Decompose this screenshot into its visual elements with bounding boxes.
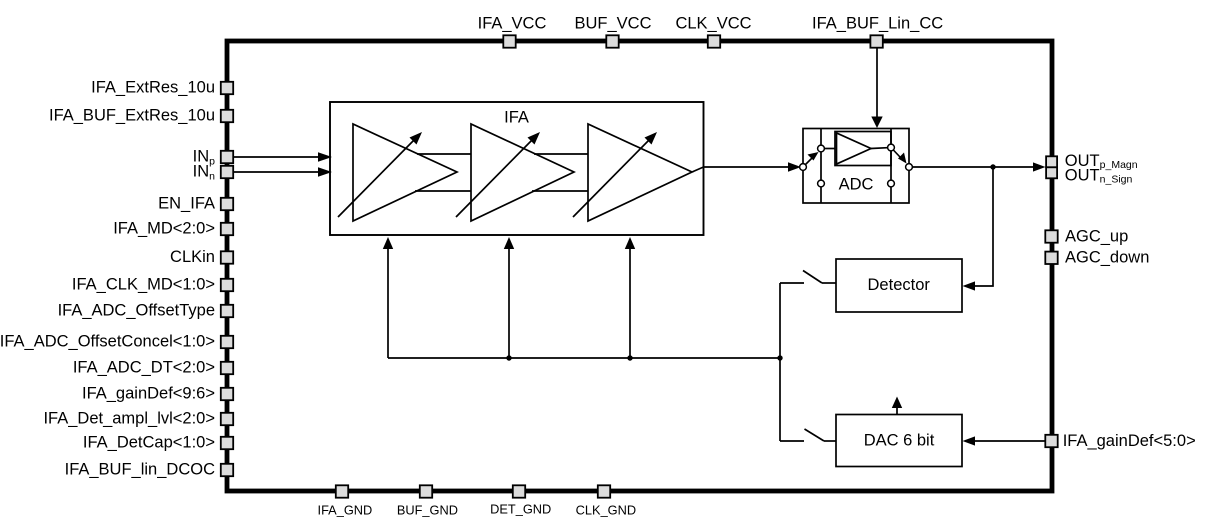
svg-text:ADC: ADC bbox=[839, 176, 874, 194]
ADC internal rail right bbox=[890, 129, 892, 204]
gain control arrow 2 bbox=[504, 237, 514, 358]
amplifier A2 bbox=[471, 124, 574, 221]
pin OUTn_Sign bbox=[1046, 167, 1132, 186]
svg-text:IFA_MD<2:0>: IFA_MD<2:0> bbox=[113, 220, 215, 238]
pin INn bbox=[193, 163, 234, 183]
node ADC out bbox=[906, 164, 913, 171]
ADC internal rail left bbox=[820, 129, 822, 204]
IFA block box bbox=[330, 102, 704, 235]
pin IFA_ADC_DT20 bbox=[73, 359, 233, 377]
svg-text:IFA_BUF_Lin_CC: IFA_BUF_Lin_CC bbox=[812, 14, 943, 32]
pin IFA_BUF_lin_DCOC bbox=[65, 461, 234, 479]
wire A3 output to IFA edge bbox=[692, 167, 704, 172]
pin IFA_gainDef5:0 bbox=[1045, 432, 1195, 450]
pin IFA_ADC_OffsetType bbox=[58, 302, 234, 320]
switch Detector feed bbox=[780, 271, 836, 284]
svg-text:IFA_ADC_OffsetConcel<1:0>: IFA_ADC_OffsetConcel<1:0> bbox=[0, 333, 215, 351]
svg-text:BUF_VCC: BUF_VCC bbox=[574, 14, 651, 32]
svg-text:DET_GND: DET_GND bbox=[490, 502, 551, 517]
switch ADC output bbox=[891, 148, 907, 164]
DAC box bbox=[836, 415, 962, 467]
gain arrow A3 bbox=[573, 132, 657, 217]
svg-text:AGC_down: AGC_down bbox=[1065, 249, 1149, 267]
DAC up arrow bbox=[892, 397, 902, 415]
wire INn into IFA bbox=[234, 167, 332, 177]
svg-text:AGC_up: AGC_up bbox=[1065, 228, 1128, 246]
amplifier A3 bbox=[588, 124, 692, 221]
node rail right lower bbox=[888, 180, 895, 187]
svg-text:IFA_gainDef<5:0>: IFA_gainDef<5:0> bbox=[1063, 432, 1196, 450]
wire IFA output to ADC bbox=[704, 162, 802, 172]
svg-text:IFA: IFA bbox=[504, 109, 529, 127]
svg-text:CLK_VCC: CLK_VCC bbox=[675, 14, 751, 32]
svg-text:IFA_ExtRes_10u: IFA_ExtRes_10u bbox=[91, 79, 215, 97]
svg-text:DAC 6 bit: DAC 6 bit bbox=[864, 432, 935, 450]
svg-text:IFA_Det_ampl_lvl<2:0>: IFA_Det_ampl_lvl<2:0> bbox=[43, 410, 215, 428]
pin IFA_CLK_MD10 bbox=[72, 276, 233, 294]
wire buffer output bbox=[871, 148, 891, 149]
wire INp into IFA bbox=[234, 152, 332, 162]
pin DET_GND bbox=[490, 485, 551, 516]
pin IFA_BUF_ExtRes_10u bbox=[49, 107, 233, 125]
svg-text:IFA_VCC: IFA_VCC bbox=[478, 14, 547, 32]
pin IFA_BUF_Lin_CC bbox=[812, 14, 943, 47]
pin CLKin bbox=[170, 248, 233, 266]
pin AGC_down bbox=[1045, 249, 1149, 267]
svg-text:IFA_DetCap<1:0>: IFA_DetCap<1:0> bbox=[83, 434, 215, 452]
svg-text:Detector: Detector bbox=[868, 276, 931, 294]
ADC buffer triangle bbox=[837, 133, 872, 164]
gain arrow A1 bbox=[338, 132, 422, 217]
junction bus riser bbox=[777, 355, 782, 360]
node rail left lower bbox=[818, 180, 825, 187]
pin IFA_ExtRes_10u bbox=[91, 79, 233, 97]
pin IFA_gainDef96 bbox=[82, 385, 233, 403]
Detector box bbox=[836, 259, 962, 312]
gain control arrow 1 bbox=[383, 237, 393, 358]
svg-text:IFA_gainDef<9:6>: IFA_gainDef<9:6> bbox=[82, 385, 215, 403]
pin IFA_ADC_OffsetConcel10 bbox=[0, 333, 233, 351]
wire interstage A2-A3 top bbox=[534, 153, 588, 155]
pin IFA_MD20 bbox=[113, 220, 233, 238]
junction bus a2 bbox=[506, 355, 511, 360]
ADC block box bbox=[803, 129, 909, 204]
pin CLK_GND bbox=[576, 485, 636, 517]
pin IFA_GND bbox=[318, 485, 373, 517]
wire IFA_gainDef5:0 to DAC bbox=[963, 436, 1047, 445]
wire interstage A1-A2 bottom bbox=[415, 190, 471, 192]
gain arrow A2 bbox=[456, 132, 540, 217]
DAC label bbox=[864, 432, 935, 450]
pin BUF_GND bbox=[397, 485, 458, 517]
svg-text:EN_IFA: EN_IFA bbox=[158, 195, 215, 213]
svg-text:IFA_ADC_OffsetType: IFA_ADC_OffsetType bbox=[58, 302, 215, 320]
ADC buffer box bbox=[835, 132, 891, 166]
ADC label bbox=[839, 176, 874, 194]
svg-text:IFA_GND: IFA_GND bbox=[318, 503, 373, 518]
wire ADC to OUT pins bbox=[913, 162, 1046, 171]
pin CLK_VCC bbox=[675, 14, 751, 47]
wire interstage A1-A2 top bbox=[417, 153, 471, 155]
wire IFA_BUF_Lin_CC down to ADC bbox=[871, 47, 882, 128]
svg-text:IFA_ADC_DT<2:0>: IFA_ADC_DT<2:0> bbox=[73, 359, 215, 377]
junction bus a3 bbox=[627, 355, 632, 360]
node ADC in bbox=[800, 164, 807, 171]
switch ADC input bbox=[803, 152, 819, 167]
svg-text:CLKin: CLKin bbox=[170, 248, 215, 266]
svg-text:IFA_BUF_ExtRes_10u: IFA_BUF_ExtRes_10u bbox=[49, 107, 215, 125]
gain control arrow 3 bbox=[625, 237, 635, 358]
svg-text:BUF_GND: BUF_GND bbox=[397, 503, 458, 518]
Detector label bbox=[868, 276, 931, 294]
svg-text:IFA_CLK_MD<1:0>: IFA_CLK_MD<1:0> bbox=[72, 276, 215, 294]
pin EN_IFA bbox=[158, 195, 233, 213]
pin IFA_Det_ampl_lvl20 bbox=[43, 410, 233, 428]
switch DAC feed bbox=[780, 429, 836, 441]
wire interstage A2-A3 bottom bbox=[532, 190, 588, 192]
pin INp bbox=[193, 148, 234, 168]
pin IFA_DetCap10 bbox=[83, 434, 233, 452]
svg-text:CLK_GND: CLK_GND bbox=[576, 503, 636, 518]
node rail right upper bbox=[888, 144, 895, 151]
node rail left upper bbox=[818, 145, 825, 152]
chip boundary bbox=[227, 41, 1052, 491]
gain bus vertical riser bbox=[779, 283, 781, 441]
wire rail to buffer input bbox=[821, 148, 835, 150]
wire branch down to Detector bbox=[963, 167, 994, 291]
pin AGC_up bbox=[1045, 228, 1128, 246]
gain bus horizontal bbox=[388, 357, 780, 359]
svg-text:IFA_BUF_lin_DCOC: IFA_BUF_lin_DCOC bbox=[65, 461, 215, 479]
pin IFA_VCC bbox=[478, 14, 547, 47]
amplifier A1 bbox=[353, 124, 457, 221]
pin OUTp_Magn bbox=[1046, 152, 1138, 171]
pin BUF_VCC bbox=[574, 14, 651, 47]
IFA block label bbox=[504, 109, 529, 127]
junction output branch bbox=[990, 164, 995, 169]
